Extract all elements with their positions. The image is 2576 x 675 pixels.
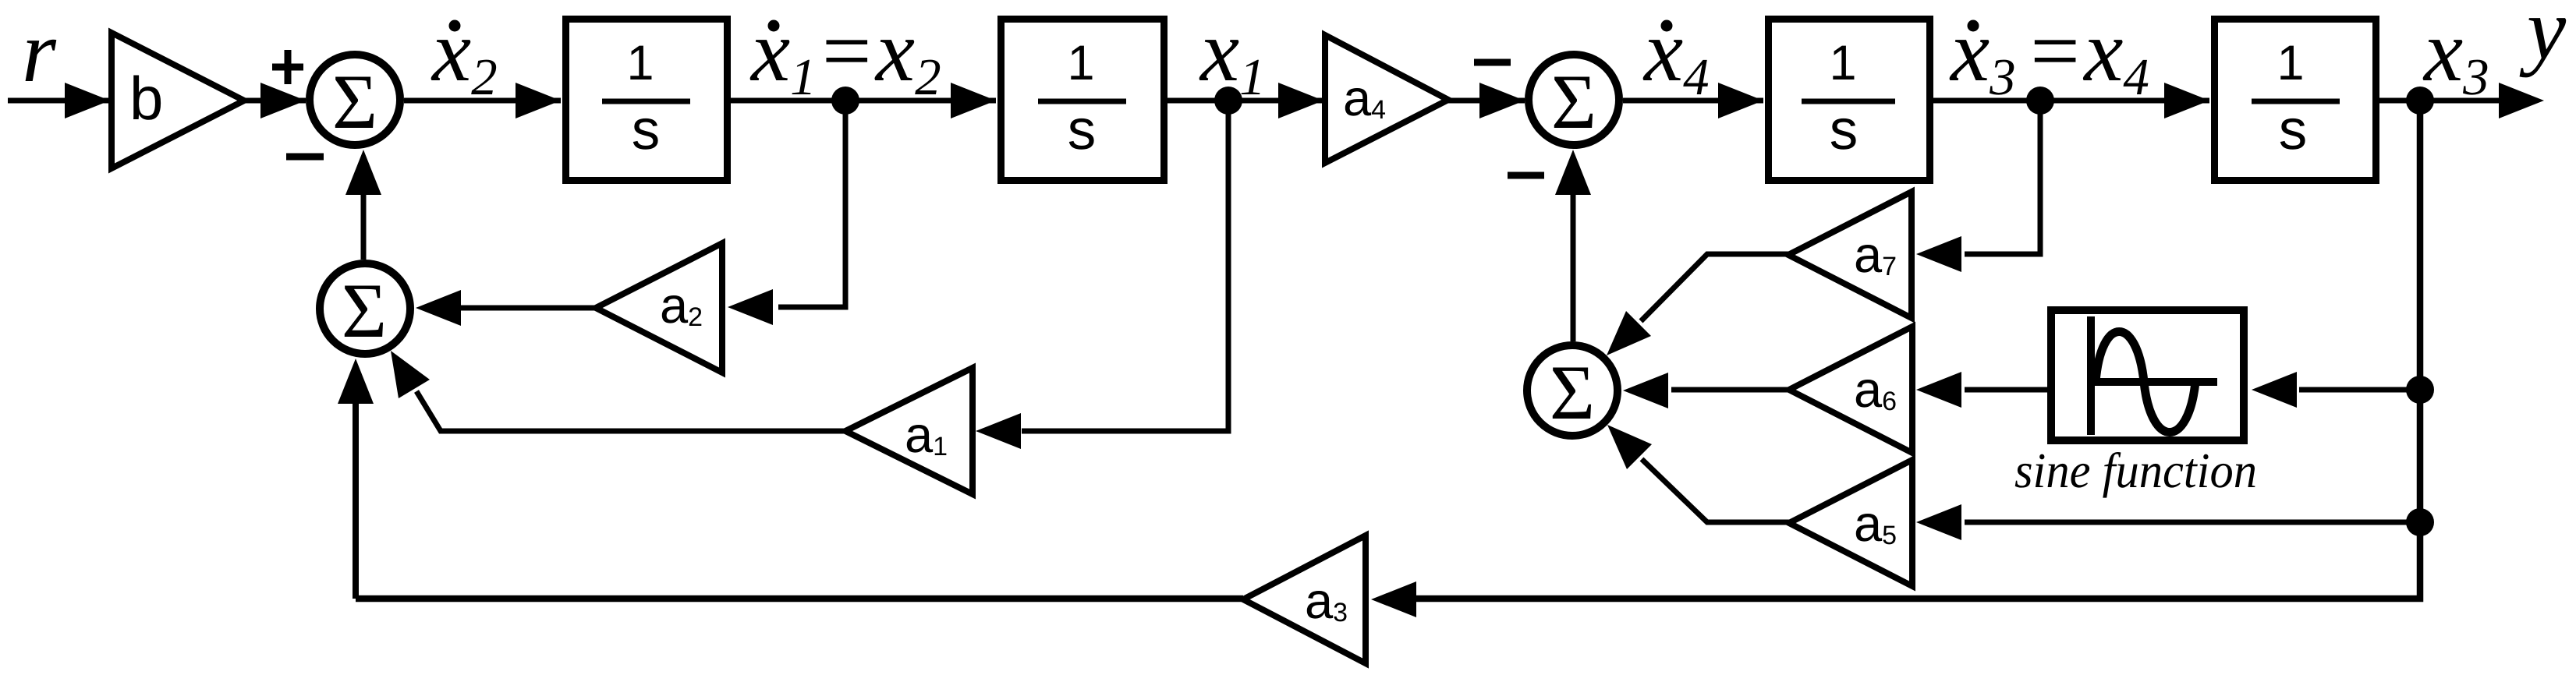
arrowhead into a2	[728, 289, 773, 325]
arrowhead sum4 into sum2	[1555, 150, 1591, 195]
wire x3 to sine box	[2299, 387, 2420, 393]
amplifier a1	[845, 368, 973, 494]
wire a1 to sum3 diagonal	[416, 391, 845, 431]
summer U2	[1529, 55, 1619, 145]
arrowhead into b	[65, 83, 110, 118]
wire xdot3 node down to a7	[1965, 101, 2040, 254]
arrowhead into a4	[1278, 83, 1323, 118]
plus sign at sum1	[272, 50, 303, 84]
node xdot2 label	[431, 2, 498, 106]
arrowhead into integrator3	[1718, 83, 1763, 118]
amplifier b	[112, 33, 244, 168]
arrowhead a5 into sum4	[1607, 425, 1652, 469]
svg-text:1: 1	[1829, 36, 1856, 90]
wire integrator1 to integrator2	[731, 98, 996, 104]
junction dot x3 to a5	[2406, 508, 2434, 536]
node x1 junction dot	[1214, 87, 1242, 115]
wire sum2 to integrator3	[1623, 98, 1763, 104]
arrowhead a2 into sum3	[416, 290, 461, 326]
minus sign below sum1	[286, 154, 324, 161]
arrowhead into sum1	[260, 83, 306, 118]
svg-text:y: y	[2519, 0, 2567, 78]
svg-text:x1=x2: x1=x2	[749, 2, 941, 106]
wire sum1 to integrator1	[404, 98, 561, 104]
integrator block 1/s #1	[566, 19, 728, 181]
node xdot4 label	[1642, 2, 1710, 106]
node xdot1=x2 label	[749, 2, 941, 106]
arrowhead a6 into sum4	[1623, 373, 1668, 408]
arrowhead into a7	[1916, 236, 1961, 272]
arrowhead output y	[2499, 83, 2544, 118]
arrowhead a3 path into sum3	[338, 359, 374, 404]
node xdot3=x4 label	[1949, 2, 2149, 106]
node xdot1=x2 junction dot	[831, 87, 859, 115]
node x3 junction dot	[2406, 87, 2434, 115]
sine function block	[2051, 310, 2244, 440]
svg-text:s: s	[2279, 98, 2308, 161]
arrowhead into a1	[976, 413, 1021, 449]
wire a7 to sum4 diagonal	[1641, 254, 1788, 321]
arrowhead into a6	[1916, 372, 1961, 408]
summer U1	[310, 55, 400, 145]
svg-text:s: s	[1068, 98, 1097, 161]
svg-text:sine function: sine function	[2014, 443, 2257, 498]
wire x3 to a5	[1965, 520, 2420, 525]
arrowhead into integrator1	[516, 83, 561, 118]
svg-text:r: r	[22, 3, 57, 101]
minus sign at sum2 lower input	[1508, 172, 1544, 179]
amplifier a2	[596, 243, 722, 373]
wire bottom left run to a3	[356, 595, 1243, 603]
wire sum3 up to sum1	[361, 195, 367, 260]
arrowhead into integrator2	[951, 83, 996, 118]
svg-text:Σ: Σ	[1551, 58, 1596, 145]
node xdot3=x4 junction dot	[2026, 87, 2054, 115]
wire a5 to sum4 diagonal	[1642, 459, 1789, 522]
amplifier a7	[1788, 192, 1912, 318]
svg-text:Σ: Σ	[342, 267, 387, 354]
wire x3 node down and along bottom to a3	[1413, 101, 2420, 599]
wire b to sum1	[244, 98, 306, 104]
amplifier a5	[1789, 460, 1912, 586]
wire a6 to sum4	[1671, 387, 1789, 393]
wire integrator2 to a4	[1168, 98, 1323, 104]
svg-text:b: b	[129, 64, 163, 133]
integrator block 1/s #2	[1001, 19, 1164, 181]
integrator block 1/s #4	[2215, 19, 2376, 181]
wire xdot1 node down to a2	[778, 101, 845, 307]
amplifier a6	[1789, 327, 1912, 453]
wire r input	[8, 98, 110, 104]
summer U3	[320, 263, 410, 354]
wire x1 node down to a1	[1022, 101, 1228, 431]
wire a3 to sum3 bottom	[353, 404, 359, 599]
amplifier a4	[1325, 35, 1448, 163]
summer U4	[1527, 345, 1618, 436]
sine axis vertical	[2087, 316, 2095, 435]
sine curve	[2096, 332, 2195, 433]
wire sum4 up to sum2	[1571, 195, 1576, 341]
svg-text:Σ: Σ	[332, 58, 377, 145]
arrowhead sum3 into sum1	[345, 150, 381, 195]
svg-text:Σ: Σ	[1550, 349, 1595, 436]
svg-text:1: 1	[2277, 36, 2304, 90]
arrowhead into integrator4	[2164, 83, 2209, 118]
minus sign at sum2 upper input	[1474, 59, 1511, 66]
wire integrator4 to output y	[2379, 98, 2503, 104]
arrowhead into sine box	[2252, 372, 2297, 408]
amplifier a3	[1243, 535, 1366, 663]
arrowhead a1 into sum3	[391, 351, 430, 398]
junction dot x3 to sine	[2406, 376, 2434, 404]
arrowhead a7 into sum4	[1607, 311, 1651, 355]
svg-text:1: 1	[1067, 36, 1094, 90]
wire sine box to a6	[1965, 387, 2047, 393]
svg-text:s: s	[1830, 98, 1858, 161]
arrowhead into a3	[1371, 581, 1416, 617]
integrator block 1/s #3	[1769, 19, 1930, 181]
svg-text:s: s	[632, 98, 661, 161]
arrowhead into sum2	[1479, 83, 1525, 118]
wire integrator3 to integrator4	[1933, 98, 2209, 104]
sine axis horizontal	[2091, 378, 2217, 386]
wire a2 to sum3	[456, 306, 596, 311]
arrowhead into a5	[1916, 504, 1961, 540]
svg-text:1: 1	[626, 36, 654, 90]
wire a4 to sum2	[1448, 98, 1525, 104]
